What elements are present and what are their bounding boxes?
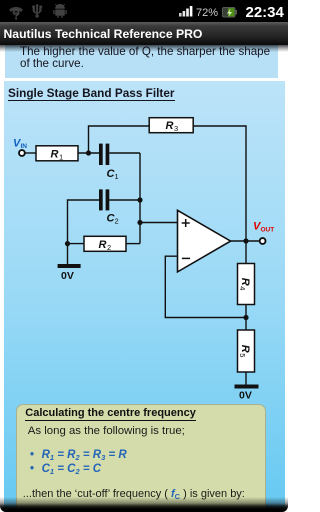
label Vout (253, 221, 274, 234)
svg-text:1: 1 (59, 152, 63, 161)
node output junction (243, 238, 248, 243)
ground right 0V (235, 385, 259, 402)
op-amp U1 (178, 210, 231, 272)
svg-text:IN: IN (21, 143, 28, 150)
wire R2 right up to non-inverting node (126, 243, 140, 245)
resistor R2 (84, 236, 126, 252)
wire R4 to R5 (245, 305, 247, 331)
title bar drop shadow (0, 45, 288, 52)
capacitor C1 (99, 144, 109, 165)
node junction C2 right (137, 197, 142, 202)
svg-text:4: 4 (238, 286, 247, 290)
label C2 (107, 213, 119, 226)
terminal Vin (19, 150, 25, 156)
status bar (0, 0, 288, 22)
resistor R3 (149, 118, 193, 134)
svg-text:2: 2 (107, 243, 111, 252)
svg-text:0V: 0V (61, 270, 74, 282)
svg-text:R: R (239, 278, 251, 286)
content: first blue block (5, 45, 279, 78)
capacitor C2 (99, 189, 109, 210)
resistor R1 (36, 146, 78, 162)
wire R3 right to output node (193, 126, 246, 241)
terminal Vout (260, 238, 266, 244)
label Vin (13, 138, 27, 151)
wire output node down to R4 (245, 241, 247, 264)
title bar (0, 22, 288, 45)
wire R1 to C1 left plate through node A (78, 152, 99, 154)
wire R5 to ground (245, 372, 247, 385)
svg-text:R: R (51, 148, 59, 160)
wire middle vertical bus (139, 153, 141, 244)
wire C2 left branch corner (68, 200, 100, 264)
green info box (16, 404, 266, 512)
svg-text:R: R (99, 239, 107, 251)
wire non-inverting input (140, 222, 178, 224)
svg-text:R: R (166, 120, 174, 132)
svg-text:R: R (239, 345, 251, 353)
wire inverting input feedback to R4 R5 node (165, 256, 246, 317)
label C1 (107, 168, 119, 181)
node A junction after R1 (86, 150, 91, 155)
svg-text:0V: 0V (239, 390, 252, 402)
svg-text:2: 2 (115, 217, 119, 226)
section block with gradient (4, 81, 285, 512)
wire top rail from node A up through to R3 left (89, 126, 150, 153)
resistor R4 (238, 264, 255, 305)
ground left 0V (58, 264, 81, 282)
wire ground node to R2 left (68, 243, 85, 245)
bottom fade to black (0, 497, 288, 512)
svg-text:OUT: OUT (261, 227, 275, 234)
wire Vin to R1 (25, 152, 36, 154)
node junction non-inverting input (137, 220, 142, 225)
node junction R4 R5 feedback (243, 315, 248, 320)
node junction R2 ground branch (65, 241, 70, 246)
svg-text:5: 5 (238, 353, 247, 357)
wire C1 right plate to middle vertical (109, 152, 140, 154)
wire C2 right plate to middle vertical (109, 199, 140, 201)
svg-text:1: 1 (115, 172, 119, 181)
svg-text:3: 3 (174, 124, 178, 133)
wire op-amp output to Vout (231, 240, 260, 242)
resistor R5 (238, 330, 255, 372)
